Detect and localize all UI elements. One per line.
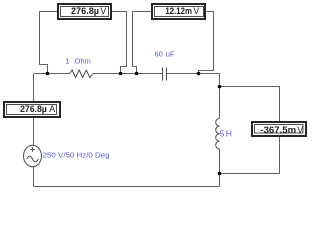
- wire rail capacitor to right corner: [167, 73, 220, 75]
- wire voltmeter U4 bottom lead: [220, 136, 280, 174]
- node dot junction right branch bottom: [218, 172, 222, 176]
- wire voltmeter U2 left lead: [133, 12, 152, 74]
- svg-text:V: V: [297, 125, 303, 135]
- capacitor C1 plates: [163, 68, 167, 81]
- svg-text:12.12m: 12.12m: [165, 6, 192, 16]
- svg-text:Ohm: Ohm: [75, 57, 91, 66]
- AC source plus sign: [30, 147, 34, 151]
- svg-text:-367.5m: -367.5m: [260, 125, 296, 135]
- wire top rail left segment: [34, 73, 70, 75]
- svg-text:H: H: [226, 129, 232, 139]
- node dot junction right branch top: [218, 85, 222, 89]
- node dot junction rail-VM2 left: [135, 72, 139, 76]
- svg-text:1: 1: [65, 57, 69, 66]
- svg-text:5: 5: [220, 129, 225, 139]
- svg-text:V: V: [193, 6, 199, 16]
- svg-text:uF: uF: [166, 50, 175, 59]
- AC source sine symbol: [27, 156, 39, 162]
- voltmeter U1 box: [58, 4, 111, 19]
- wire bottom rail: [34, 186, 220, 188]
- node dot junction rail-VM1 left: [46, 72, 50, 76]
- resistor R1: [70, 70, 94, 78]
- svg-text:276.8µ: 276.8µ: [71, 6, 99, 16]
- voltmeter U4 box: [252, 122, 306, 136]
- wire voltmeter U4 top lead: [220, 87, 280, 123]
- svg-text:V: V: [100, 6, 106, 16]
- AC source V1 circle: [24, 145, 42, 166]
- wire right branch upper: [219, 74, 221, 119]
- wire rail resistor to capacitor: [93, 73, 163, 75]
- wire voltmeter U1 right lead: [112, 12, 127, 74]
- wire right branch lower: [219, 149, 221, 187]
- node dot junction rail-VM2 right: [197, 72, 201, 76]
- svg-text:276.8µ: 276.8µ: [20, 104, 47, 114]
- node dot junction rail-VM1 right: [119, 72, 123, 76]
- inductor L1: [216, 119, 220, 149]
- wire voltmeter U1 left lead: [40, 12, 58, 74]
- voltmeter U2 box: [152, 4, 205, 19]
- svg-text:250 V/50 Hz/0 Deg: 250 V/50 Hz/0 Deg: [43, 151, 110, 160]
- svg-text:A: A: [49, 104, 55, 114]
- wire voltmeter U2 right lead: [199, 12, 214, 74]
- wire left branch: [33, 74, 35, 187]
- svg-text:60: 60: [155, 50, 163, 59]
- ammeter U3 box: [4, 102, 60, 117]
